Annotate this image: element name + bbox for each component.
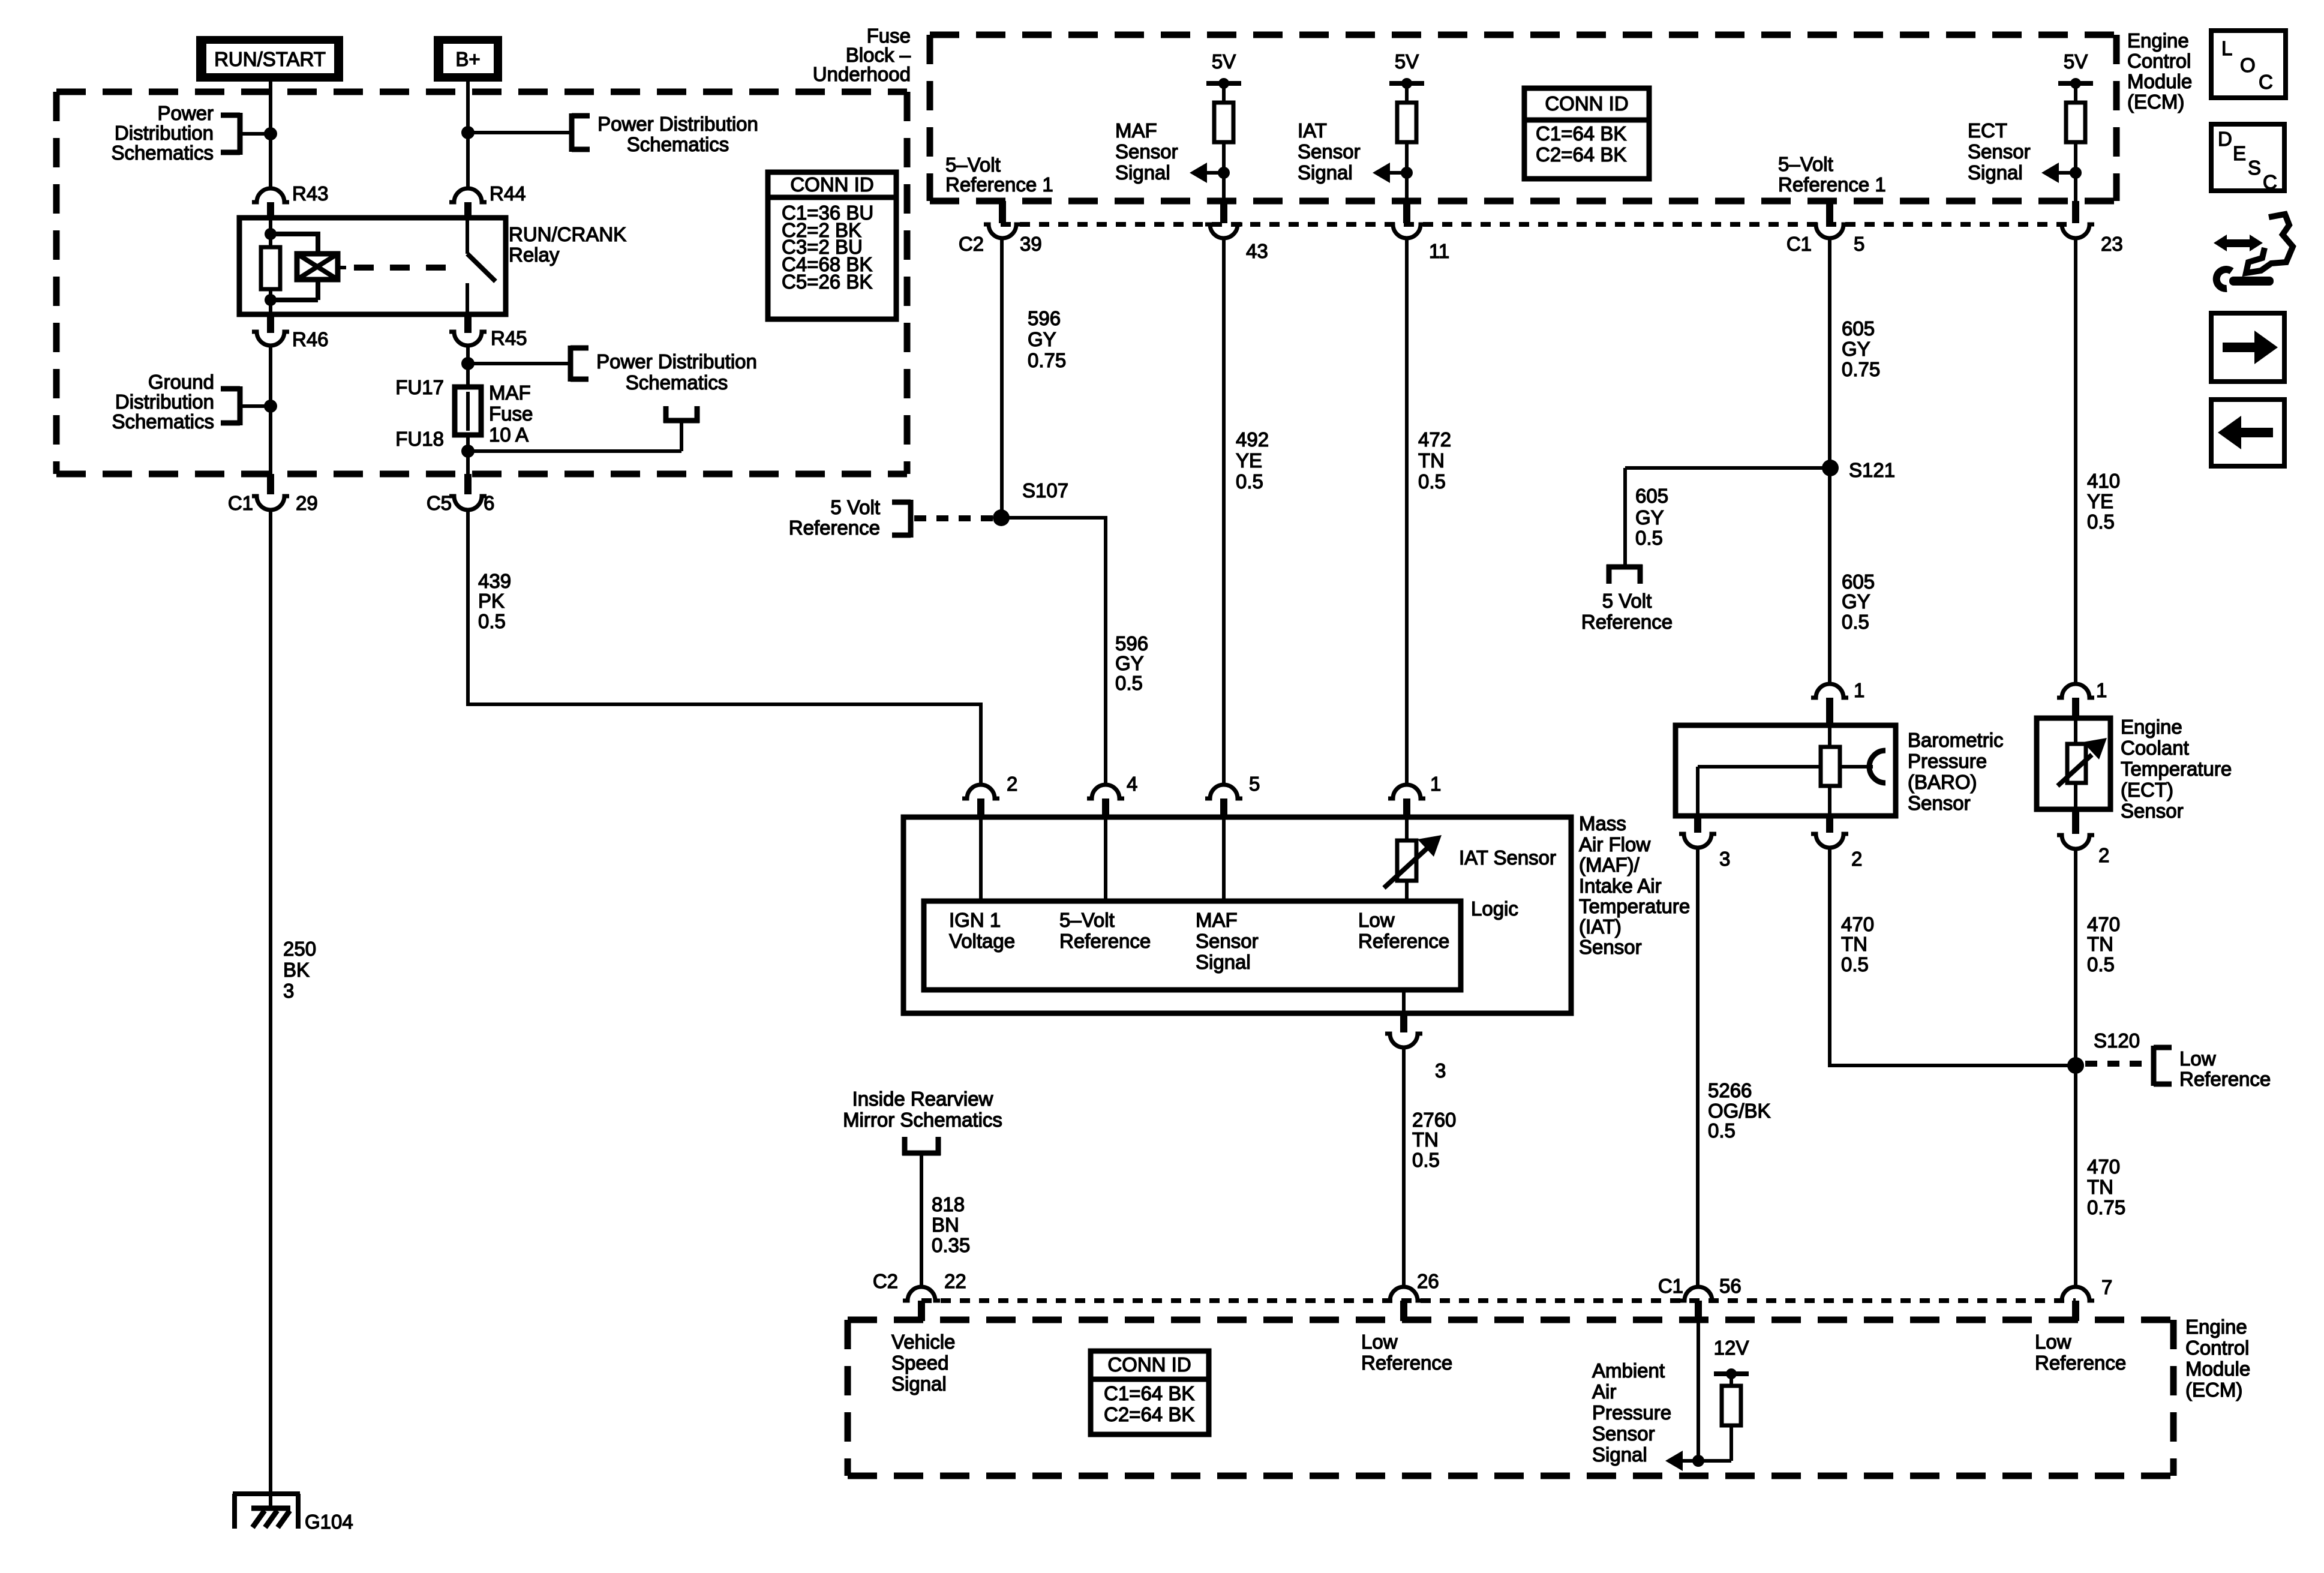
svg-text:Reference: Reference [789, 517, 880, 539]
svg-text:12V: 12V [1714, 1337, 1749, 1359]
svg-text:S: S [2248, 157, 2261, 179]
svg-text:Temperature: Temperature [2121, 758, 2232, 780]
svg-text:R45: R45 [491, 327, 527, 349]
svg-text:596: 596 [1115, 632, 1148, 655]
svg-text:1: 1 [1430, 773, 1441, 795]
svg-text:IAT: IAT [1298, 119, 1327, 142]
svg-text:492: 492 [1236, 428, 1269, 451]
svg-text:Control: Control [2127, 50, 2191, 72]
svg-text:(IAT): (IAT) [1579, 915, 1622, 938]
svg-text:5 Volt: 5 Volt [1602, 590, 1652, 612]
svg-text:E: E [2233, 142, 2246, 164]
svg-text:5–Volt: 5–Volt [1778, 153, 1833, 175]
svg-text:ECT: ECT [1968, 119, 2007, 142]
svg-text:Mass: Mass [1579, 812, 1626, 834]
svg-text:Sensor: Sensor [1908, 792, 1971, 814]
svg-text:Distribution: Distribution [115, 122, 214, 144]
svg-text:Engine: Engine [2121, 716, 2182, 738]
svg-text:6: 6 [484, 492, 494, 514]
svg-text:Sensor: Sensor [1579, 936, 1642, 958]
svg-text:(ECM): (ECM) [2127, 91, 2184, 113]
svg-text:CONN ID: CONN ID [1107, 1353, 1191, 1376]
svg-text:C5=26 BK: C5=26 BK [782, 271, 872, 293]
svg-text:RUN/START: RUN/START [214, 48, 326, 70]
svg-text:0.5: 0.5 [1418, 470, 1446, 493]
svg-text:5266: 5266 [1708, 1079, 1752, 1101]
svg-text:C1: C1 [1786, 233, 1812, 255]
svg-text:0.75: 0.75 [2087, 1196, 2125, 1218]
svg-text:0.5: 0.5 [1708, 1119, 1736, 1142]
svg-text:Engine: Engine [2185, 1316, 2247, 1338]
svg-text:5V: 5V [2064, 50, 2088, 73]
svg-text:818: 818 [932, 1193, 965, 1215]
svg-text:YE: YE [2087, 490, 2113, 512]
svg-text:C: C [2263, 171, 2277, 193]
svg-text:Reference 1: Reference 1 [1778, 173, 1886, 196]
svg-text:FU17: FU17 [395, 376, 444, 398]
svg-text:3: 3 [283, 980, 294, 1002]
svg-text:(MAF)/: (MAF)/ [1579, 854, 1640, 876]
svg-text:605: 605 [1842, 317, 1875, 340]
svg-text:Coolant: Coolant [2121, 737, 2189, 759]
svg-text:0.75: 0.75 [1028, 349, 1066, 371]
svg-text:0.5: 0.5 [478, 610, 506, 632]
svg-text:GY: GY [1635, 506, 1664, 529]
svg-text:470: 470 [2087, 913, 2120, 935]
svg-text:Ground: Ground [148, 371, 214, 393]
svg-text:Signal: Signal [1592, 1443, 1647, 1466]
svg-text:250: 250 [283, 938, 316, 960]
svg-text:TN: TN [2087, 1176, 2113, 1198]
svg-text:Engine: Engine [2127, 29, 2189, 52]
svg-text:470: 470 [1841, 913, 1874, 935]
svg-text:GY: GY [1842, 338, 1870, 360]
svg-text:29: 29 [296, 492, 318, 514]
svg-text:CONN ID: CONN ID [1545, 92, 1628, 115]
svg-text:Reference: Reference [1581, 611, 1673, 633]
svg-text:Sensor: Sensor [1115, 140, 1178, 163]
svg-text:10 A: 10 A [489, 424, 529, 446]
svg-text:IGN 1: IGN 1 [949, 909, 1001, 931]
svg-text:Power: Power [157, 102, 214, 124]
svg-text:3: 3 [1435, 1059, 1446, 1082]
svg-text:0.5: 0.5 [1841, 953, 1869, 975]
svg-text:D: D [2218, 128, 2232, 150]
svg-text:26: 26 [1417, 1270, 1439, 1292]
svg-text:MAF: MAF [1196, 909, 1238, 931]
svg-text:Barometric: Barometric [1908, 729, 2004, 751]
svg-text:IAT Sensor: IAT Sensor [1459, 846, 1556, 869]
svg-text:Vehicle: Vehicle [891, 1331, 955, 1353]
svg-text:Signal: Signal [1115, 161, 1170, 184]
svg-text:Reference: Reference [1358, 930, 1449, 952]
svg-text:C2: C2 [873, 1270, 898, 1292]
svg-text:TN: TN [1841, 933, 1867, 955]
svg-text:R44: R44 [490, 182, 526, 205]
svg-text:0.5: 0.5 [1842, 611, 1869, 633]
svg-text:Speed: Speed [891, 1352, 948, 1374]
svg-text:PK: PK [478, 590, 505, 612]
svg-text:R46: R46 [292, 328, 329, 350]
svg-text:Sensor: Sensor [1968, 140, 2031, 163]
svg-text:11: 11 [1429, 240, 1449, 262]
svg-text:Control: Control [2185, 1337, 2249, 1359]
svg-text:43: 43 [1246, 240, 1268, 262]
svg-text:7: 7 [2101, 1276, 2112, 1298]
svg-text:5V: 5V [1395, 50, 1419, 73]
svg-text:Low: Low [1361, 1331, 1398, 1353]
svg-text:Signal: Signal [1968, 161, 2023, 184]
svg-text:Reference: Reference [2179, 1068, 2271, 1090]
svg-text:R43: R43 [292, 182, 329, 205]
svg-text:Inside Rearview: Inside Rearview [852, 1088, 993, 1110]
svg-text:0.35: 0.35 [932, 1234, 970, 1256]
svg-text:Underhood: Underhood [813, 63, 911, 85]
svg-text:0.5: 0.5 [1635, 527, 1663, 549]
svg-text:5: 5 [1249, 773, 1260, 795]
svg-text:439: 439 [478, 570, 511, 592]
svg-text:C1=64 BK: C1=64 BK [1536, 122, 1626, 145]
svg-text:L: L [2221, 37, 2232, 59]
svg-text:Signal: Signal [891, 1373, 947, 1395]
svg-text:MAF: MAF [1115, 119, 1157, 142]
svg-text:470: 470 [2087, 1155, 2120, 1178]
svg-text:Pressure: Pressure [1908, 750, 1987, 772]
svg-text:Reference 1: Reference 1 [945, 173, 1053, 196]
svg-text:Fuse: Fuse [489, 403, 533, 425]
svg-text:Air Flow: Air Flow [1579, 833, 1650, 855]
svg-text:Ambient: Ambient [1592, 1359, 1665, 1382]
svg-text:Low: Low [1358, 909, 1395, 931]
svg-text:Module: Module [2185, 1358, 2250, 1380]
svg-text:0.5: 0.5 [2087, 511, 2115, 533]
svg-text:TN: TN [1418, 449, 1445, 472]
svg-text:56: 56 [1719, 1275, 1742, 1297]
svg-text:FU18: FU18 [395, 428, 444, 450]
svg-text:C2: C2 [959, 233, 984, 255]
svg-text:C2=64 BK: C2=64 BK [1104, 1403, 1194, 1425]
svg-text:Logic: Logic [1471, 897, 1518, 920]
svg-text:472: 472 [1418, 428, 1451, 451]
svg-text:Schematics: Schematics [111, 142, 214, 164]
svg-text:Signal: Signal [1298, 161, 1353, 184]
svg-text:Voltage: Voltage [949, 930, 1015, 952]
svg-text:Sensor: Sensor [2121, 800, 2184, 822]
svg-text:Relay: Relay [509, 244, 560, 266]
svg-text:CONN ID: CONN ID [790, 173, 873, 196]
svg-text:Power Distribution: Power Distribution [597, 113, 758, 135]
svg-text:0.5: 0.5 [1236, 470, 1263, 493]
svg-text:Power Distribution: Power Distribution [596, 350, 757, 373]
svg-text:1: 1 [2096, 679, 2107, 701]
svg-text:4: 4 [1127, 773, 1137, 795]
svg-text:TN: TN [1412, 1128, 1439, 1151]
svg-text:0.75: 0.75 [1842, 358, 1880, 380]
svg-text:G104: G104 [305, 1511, 353, 1533]
svg-text:5–Volt: 5–Volt [945, 154, 1001, 176]
svg-text:C2=64 BK: C2=64 BK [1536, 143, 1626, 166]
svg-text:410: 410 [2087, 470, 2120, 492]
svg-text:B+: B+ [455, 48, 480, 70]
svg-text:C: C [2259, 71, 2273, 93]
svg-text:O: O [2240, 54, 2256, 76]
svg-text:Temperature: Temperature [1579, 895, 1690, 917]
svg-text:1: 1 [1854, 679, 1864, 701]
svg-text:BK: BK [283, 959, 310, 981]
svg-text:5V: 5V [1212, 50, 1236, 73]
svg-text:0.5: 0.5 [1115, 672, 1143, 694]
svg-text:23: 23 [2101, 233, 2123, 255]
svg-text:C5: C5 [427, 492, 452, 514]
svg-text:YE: YE [1236, 449, 1262, 472]
svg-text:Reference: Reference [1361, 1352, 1452, 1374]
svg-text:0.5: 0.5 [2087, 953, 2115, 975]
svg-text:Reference: Reference [2035, 1352, 2126, 1374]
svg-text:Sensor: Sensor [1196, 930, 1259, 952]
svg-text:39: 39 [1020, 233, 1042, 255]
svg-text:Sensor: Sensor [1298, 140, 1361, 163]
svg-text:605: 605 [1635, 485, 1668, 507]
svg-text:BN: BN [932, 1214, 959, 1236]
svg-text:2: 2 [2098, 844, 2109, 866]
svg-text:GY: GY [1842, 590, 1870, 613]
svg-text:3: 3 [1719, 848, 1730, 870]
svg-text:S121: S121 [1849, 459, 1895, 481]
svg-text:Module: Module [2127, 70, 2192, 92]
svg-text:Intake Air: Intake Air [1579, 875, 1662, 897]
svg-text:S107: S107 [1022, 479, 1068, 502]
svg-text:Low: Low [2179, 1047, 2216, 1070]
svg-text:5: 5 [1854, 233, 1864, 255]
svg-text:Sensor: Sensor [1592, 1422, 1655, 1445]
svg-text:TN: TN [2087, 933, 2113, 955]
svg-text:GY: GY [1028, 328, 1056, 350]
svg-text:0.5: 0.5 [1412, 1149, 1440, 1171]
svg-text:C1=64 BK: C1=64 BK [1104, 1382, 1194, 1404]
svg-text:22: 22 [944, 1270, 966, 1292]
svg-text:C1: C1 [1658, 1275, 1683, 1297]
svg-text:Reference: Reference [1059, 930, 1151, 952]
svg-text:(ECT): (ECT) [2121, 779, 2173, 801]
svg-text:2: 2 [1851, 848, 1862, 870]
svg-text:GY: GY [1115, 652, 1144, 674]
svg-text:Signal: Signal [1196, 951, 1251, 973]
svg-text:Pressure: Pressure [1592, 1401, 1671, 1424]
svg-text:Low: Low [2035, 1331, 2071, 1353]
svg-text:596: 596 [1028, 307, 1061, 329]
svg-text:Air: Air [1592, 1380, 1616, 1403]
svg-text:MAF: MAF [489, 382, 531, 404]
svg-text:Distribution: Distribution [115, 391, 214, 413]
svg-text:5 Volt: 5 Volt [830, 496, 880, 518]
svg-text:RUN/CRANK: RUN/CRANK [509, 223, 626, 245]
svg-text:(ECM): (ECM) [2185, 1379, 2242, 1401]
svg-text:OG/BK: OG/BK [1708, 1100, 1771, 1122]
svg-text:Schematics: Schematics [626, 371, 728, 394]
svg-text:5–Volt: 5–Volt [1059, 909, 1115, 931]
svg-text:S120: S120 [2094, 1029, 2140, 1052]
svg-text:(BARO): (BARO) [1908, 771, 1977, 793]
svg-text:Mirror Schematics: Mirror Schematics [843, 1109, 1002, 1131]
svg-text:605: 605 [1842, 571, 1875, 593]
svg-text:Schematics: Schematics [112, 410, 214, 433]
svg-text:2760: 2760 [1412, 1109, 1456, 1131]
svg-text:2: 2 [1007, 773, 1017, 795]
svg-text:Schematics: Schematics [627, 133, 729, 155]
svg-text:C1: C1 [228, 492, 253, 514]
